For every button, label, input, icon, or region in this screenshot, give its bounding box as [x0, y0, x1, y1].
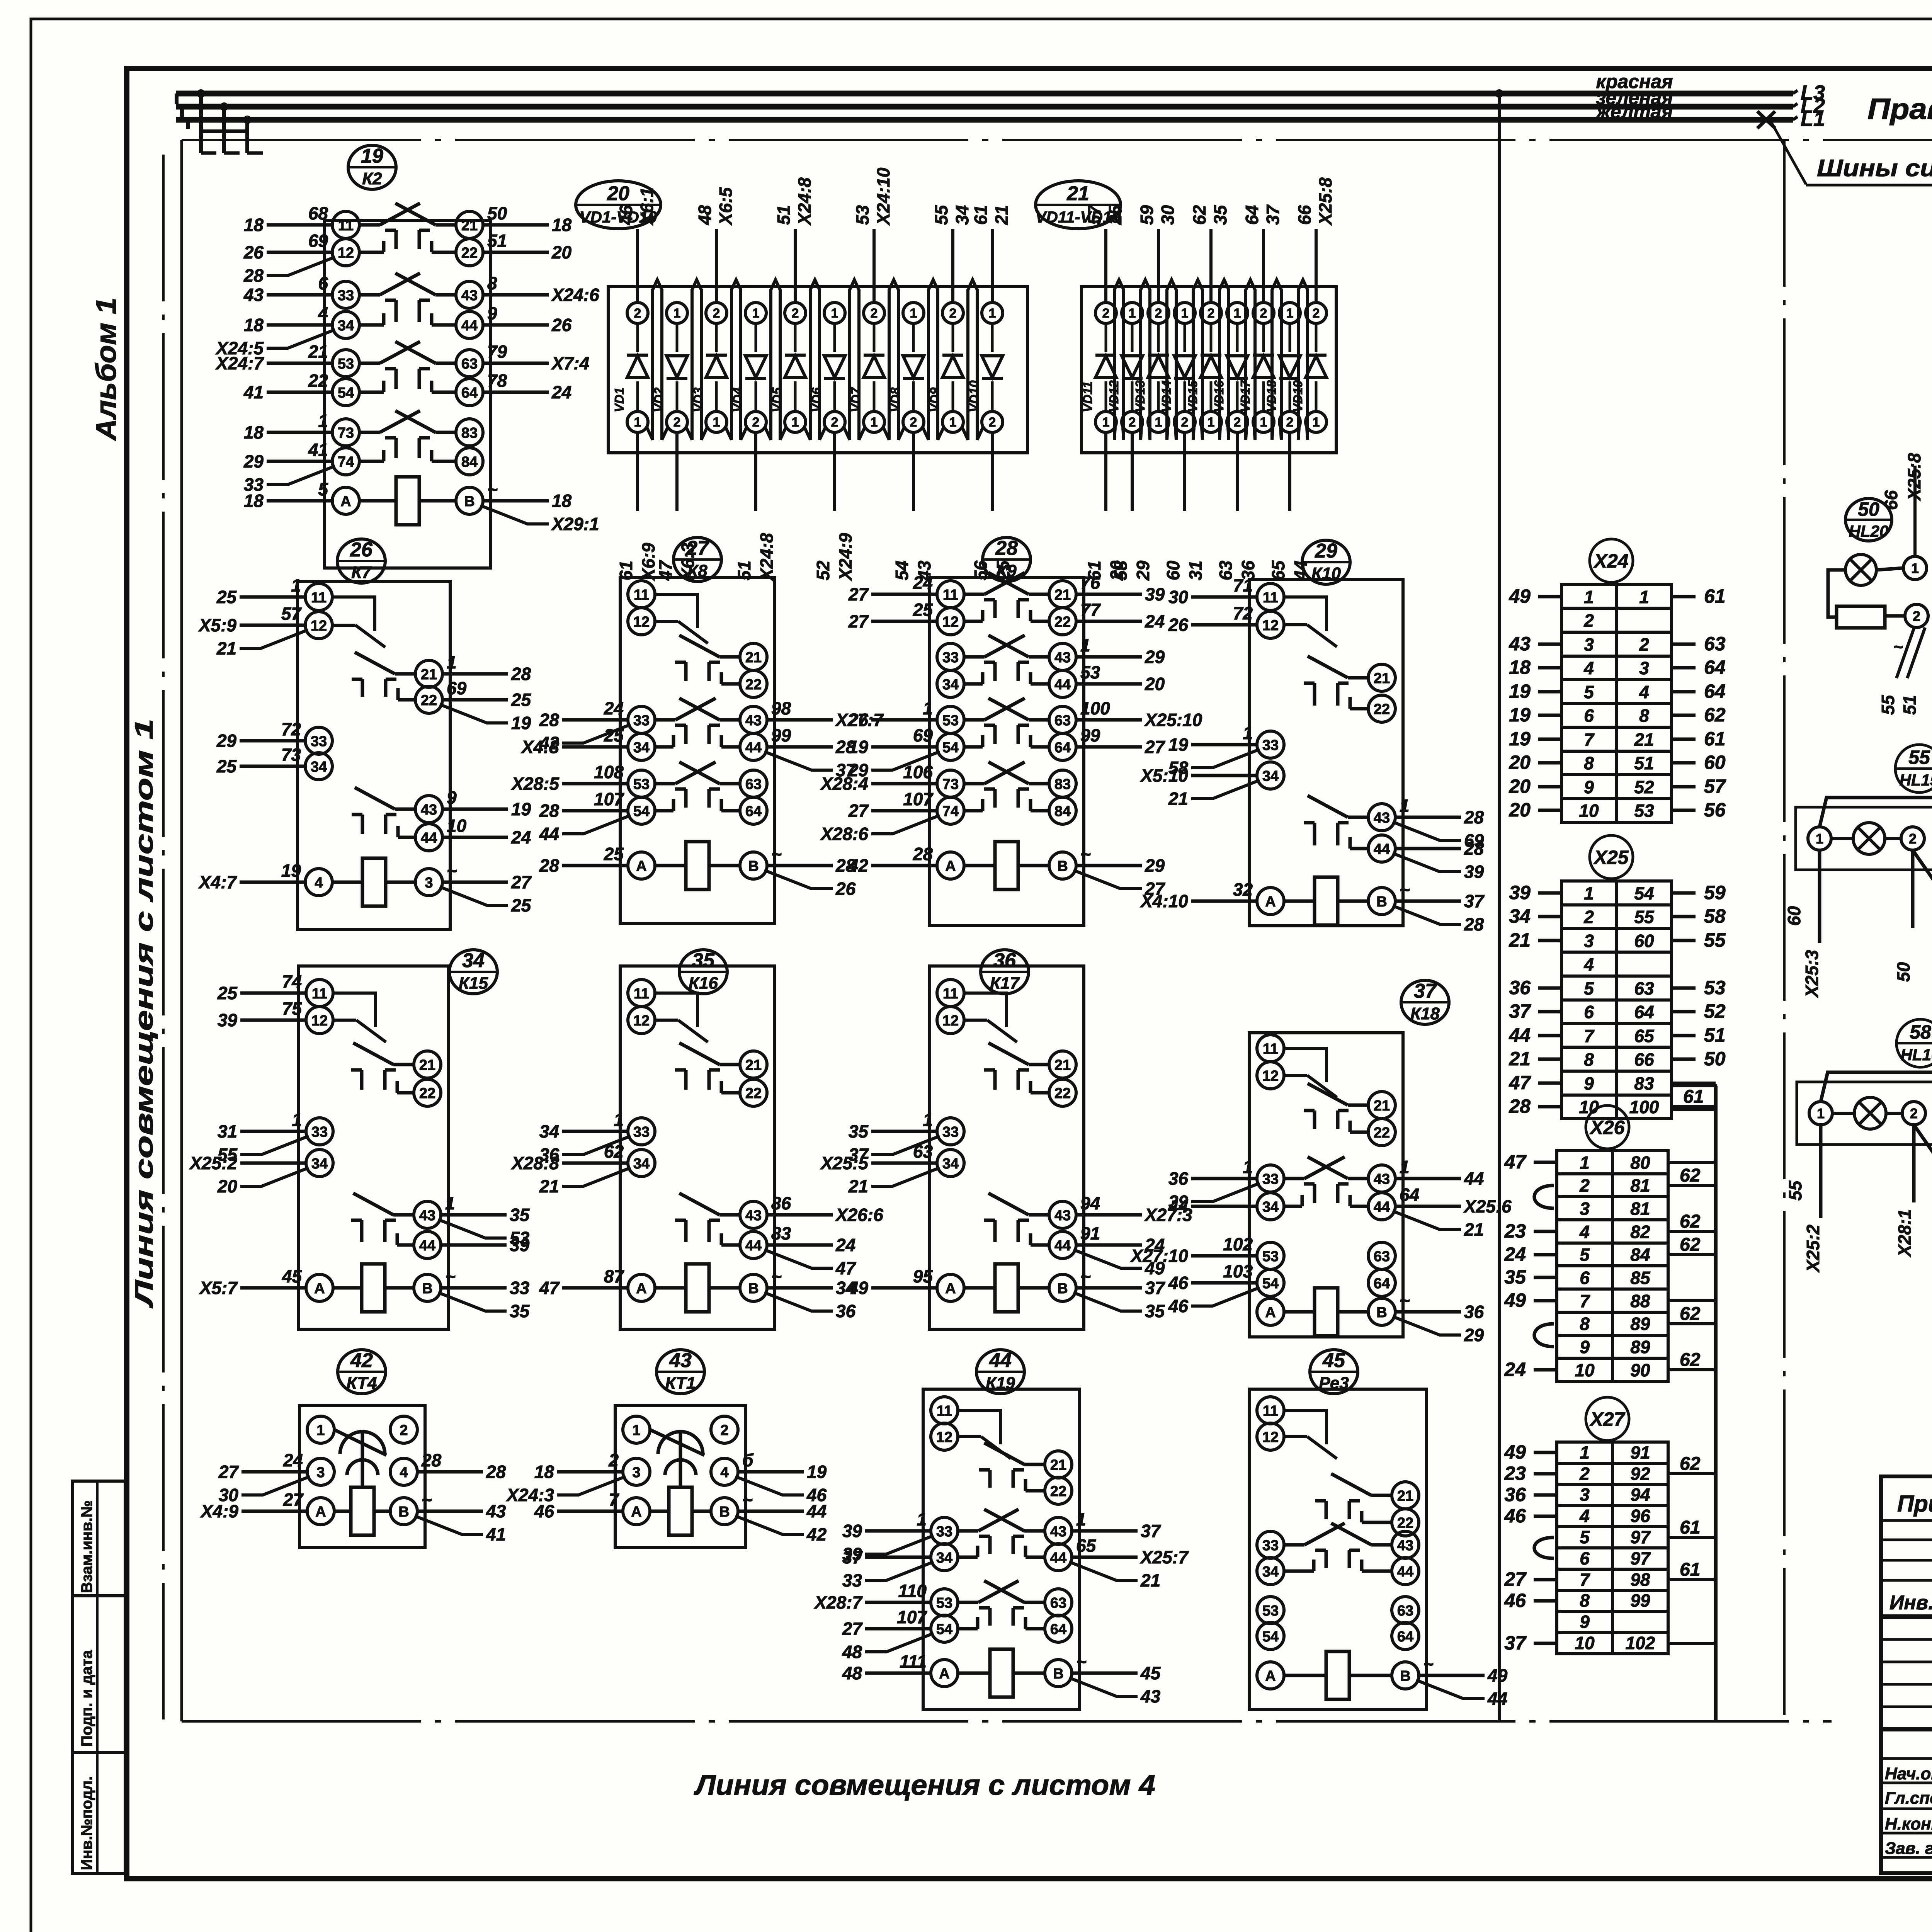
svg-text:10: 10: [1579, 801, 1599, 821]
svg-text:VD8: VD8: [888, 387, 902, 412]
svg-text:51: 51: [1704, 1024, 1726, 1046]
svg-text:10: 10: [447, 816, 467, 836]
svg-text:2: 2: [871, 306, 878, 321]
svg-text:5: 5: [1580, 1527, 1590, 1547]
svg-text:24: 24: [835, 1235, 855, 1255]
svg-text:1: 1: [1580, 1153, 1590, 1173]
svg-text:24: 24: [1504, 1243, 1526, 1265]
svg-text:2: 2: [608, 1450, 619, 1470]
svg-text:VD17: VD17: [1238, 380, 1252, 412]
svg-text:42: 42: [806, 1524, 827, 1544]
relay K9 (pos 28): [820, 537, 1202, 925]
svg-text:46: 46: [1168, 1273, 1189, 1293]
svg-text:49: 49: [1504, 1441, 1526, 1463]
svg-text:18: 18: [244, 215, 264, 235]
svg-text:55: 55: [931, 204, 951, 225]
svg-text:47: 47: [1504, 1151, 1527, 1173]
svg-text:A: A: [314, 1281, 325, 1297]
bus L3 (red): [176, 91, 1793, 97]
svg-text:12: 12: [633, 1013, 650, 1029]
svg-text:33: 33: [942, 650, 959, 666]
side stamp strip (Vzam/Podp/Inv): [72, 1481, 125, 1873]
svg-text:25: 25: [1105, 204, 1125, 225]
terminal block X26: [1504, 1105, 1716, 1381]
svg-text:11: 11: [943, 986, 958, 1002]
svg-text:98: 98: [771, 698, 791, 718]
svg-text:95: 95: [913, 1266, 934, 1286]
svg-text:44: 44: [1291, 561, 1311, 581]
svg-text:1: 1: [634, 415, 641, 430]
svg-text:83: 83: [461, 425, 478, 441]
svg-text:53: 53: [1262, 1248, 1279, 1265]
svg-text:18: 18: [244, 422, 264, 442]
svg-text:B: B: [748, 858, 759, 874]
svg-text:37: 37: [1263, 204, 1283, 225]
svg-text:1: 1: [1080, 635, 1090, 655]
svg-text:43: 43: [1374, 810, 1390, 826]
svg-text:63: 63: [461, 356, 478, 372]
svg-text:63: 63: [1050, 1595, 1066, 1611]
svg-text:33: 33: [936, 1524, 952, 1540]
svg-text:49: 49: [1509, 585, 1531, 607]
svg-text:2: 2: [1583, 611, 1594, 631]
svg-text:60: 60: [1784, 906, 1804, 926]
svg-text:8: 8: [1580, 1314, 1590, 1334]
svg-text:27: 27: [1504, 1568, 1527, 1590]
svg-text:1: 1: [917, 1509, 927, 1529]
svg-text:A: A: [636, 1281, 646, 1297]
svg-text:18: 18: [534, 1462, 554, 1482]
svg-text:6: 6: [1584, 706, 1594, 726]
svg-text:61: 61: [1683, 1087, 1704, 1107]
svg-text:27: 27: [218, 1462, 240, 1482]
svg-text:12: 12: [1262, 1429, 1279, 1446]
svg-text:7: 7: [1580, 1570, 1590, 1590]
svg-text:VD12: VD12: [1107, 380, 1121, 412]
svg-text:12: 12: [1262, 617, 1279, 634]
svg-text:2: 2: [1579, 1175, 1590, 1196]
svg-text:X25:8: X25:8: [1315, 177, 1335, 226]
svg-text:27: 27: [511, 872, 532, 892]
svg-text:б: б: [742, 1450, 754, 1470]
svg-text:64: 64: [745, 803, 762, 820]
svg-text:X25:2: X25:2: [1803, 1225, 1823, 1273]
svg-text:34: 34: [462, 949, 485, 972]
svg-text:73: 73: [281, 745, 301, 765]
svg-text:21: 21: [1509, 929, 1531, 951]
cabinet boundary left: [180, 140, 183, 1721]
svg-text:43: 43: [461, 287, 478, 304]
svg-text:43: 43: [243, 285, 264, 305]
svg-text:1: 1: [1155, 415, 1162, 430]
svg-text:44: 44: [1509, 1024, 1531, 1046]
door boundary left dash-dot: [1783, 140, 1786, 1723]
svg-text:1: 1: [989, 306, 996, 321]
svg-text:64: 64: [1397, 1629, 1413, 1645]
svg-text:55: 55: [1634, 907, 1655, 927]
svg-text:VD6: VD6: [809, 387, 823, 412]
svg-text:К2: К2: [362, 169, 382, 188]
svg-text:Привязан: Привязан: [1897, 1491, 1932, 1517]
svg-text:37: 37: [1145, 1278, 1166, 1298]
svg-text:78: 78: [487, 371, 507, 391]
svg-text:2: 2: [1583, 907, 1594, 927]
svg-text:21: 21: [1634, 730, 1654, 750]
svg-text:19: 19: [511, 713, 531, 733]
svg-text:91: 91: [1080, 1223, 1100, 1243]
svg-text:12: 12: [338, 245, 354, 261]
svg-text:111: 111: [900, 1651, 927, 1672]
svg-text:34: 34: [1509, 905, 1531, 927]
svg-text:47: 47: [835, 1258, 857, 1278]
svg-text:43: 43: [1054, 650, 1071, 666]
svg-text:66: 66: [1881, 490, 1901, 510]
svg-text:X24:9: X24:9: [835, 533, 855, 582]
svg-text:39: 39: [510, 1235, 530, 1255]
svg-text:2: 2: [752, 415, 760, 430]
svg-text:19: 19: [1168, 735, 1189, 755]
svg-text:61: 61: [1084, 561, 1104, 580]
svg-text:34: 34: [633, 1156, 650, 1172]
svg-text:30: 30: [1168, 587, 1189, 607]
svg-text:HL10: HL10: [1901, 1046, 1932, 1064]
bus labels L3 L2 L1: [1793, 81, 1825, 131]
svg-text:21: 21: [421, 667, 437, 683]
svg-text:1: 1: [923, 1110, 933, 1130]
svg-text:B: B: [1057, 1281, 1068, 1297]
svg-text:64: 64: [461, 385, 478, 401]
svg-text:19: 19: [361, 145, 383, 167]
svg-text:B: B: [422, 1281, 432, 1297]
svg-text:64: 64: [1054, 740, 1071, 756]
svg-text:47: 47: [655, 560, 675, 581]
svg-text:X6:1: X6:1: [637, 187, 657, 226]
svg-text:61: 61: [616, 561, 636, 580]
diode assembly VD11-VD19 (pos 21): [1036, 177, 1337, 581]
svg-text:Подп. и дата: Подп. и дата: [78, 1650, 95, 1747]
relay K2 (pos 19): [215, 145, 599, 568]
svg-text:X24: X24: [1593, 550, 1629, 572]
svg-text:44: 44: [806, 1501, 827, 1521]
svg-text:~: ~: [742, 1490, 753, 1510]
svg-text:2: 2: [1155, 306, 1162, 321]
svg-text:47: 47: [539, 1278, 560, 1298]
svg-text:21: 21: [539, 1176, 559, 1196]
svg-text:28: 28: [1464, 914, 1484, 934]
svg-text:28: 28: [421, 1450, 442, 1470]
svg-text:81: 81: [1630, 1175, 1650, 1196]
svg-text:64: 64: [1242, 205, 1262, 225]
svg-text:43: 43: [745, 713, 762, 729]
lamp assembly HL10 (pos 58): [1785, 1019, 1932, 1273]
svg-text:35: 35: [510, 1301, 530, 1321]
svg-text:34: 34: [338, 318, 354, 334]
svg-text:A: A: [340, 493, 351, 510]
svg-text:VD19: VD19: [1291, 380, 1305, 412]
svg-text:63: 63: [1397, 1603, 1413, 1619]
cross mark on bus L1: [1757, 111, 1775, 128]
svg-text:26: 26: [243, 242, 264, 262]
relay Re3 (pos 45): [1249, 1349, 1508, 1709]
svg-text:8: 8: [1584, 1049, 1594, 1070]
terminal block X24: [1509, 539, 1726, 822]
svg-text:50: 50: [1858, 498, 1879, 520]
svg-text:88: 88: [1630, 1291, 1650, 1311]
svg-text:43: 43: [1140, 1686, 1161, 1706]
svg-text:37: 37: [1414, 980, 1437, 1002]
svg-text:25: 25: [993, 560, 1013, 581]
svg-text:1: 1: [1207, 415, 1215, 430]
svg-text:107: 107: [594, 789, 624, 809]
svg-text:21: 21: [216, 638, 236, 658]
svg-text:Зав. гр.: Зав. гр.: [1885, 1839, 1932, 1858]
svg-text:79: 79: [487, 342, 507, 362]
terminal block X25: [1509, 835, 1726, 1119]
svg-text:X5:7: X5:7: [199, 1278, 238, 1298]
svg-text:36: 36: [993, 949, 1016, 972]
svg-text:20: 20: [551, 242, 572, 262]
svg-text:Н.контр: Н.контр: [1885, 1815, 1932, 1833]
svg-text:29: 29: [1315, 540, 1337, 562]
svg-text:44: 44: [419, 1238, 435, 1254]
svg-text:4: 4: [315, 875, 323, 891]
svg-text:25: 25: [511, 690, 532, 710]
svg-text:84: 84: [461, 454, 478, 470]
svg-text:~: ~: [1076, 1651, 1087, 1672]
svg-text:~: ~: [1080, 1266, 1091, 1286]
svg-text:22: 22: [1397, 1515, 1413, 1531]
svg-text:21: 21: [1054, 1057, 1071, 1073]
svg-text:98: 98: [1630, 1570, 1650, 1590]
svg-text:HL15: HL15: [1900, 771, 1932, 789]
svg-text:89: 89: [1630, 1337, 1650, 1357]
svg-text:54: 54: [1262, 1276, 1279, 1292]
svg-text:26: 26: [1168, 615, 1189, 635]
svg-text:34: 34: [539, 1121, 559, 1141]
svg-text:65: 65: [1634, 1026, 1655, 1046]
relay K19 (pos 44): [813, 1349, 1189, 1709]
svg-text:53: 53: [1634, 801, 1654, 821]
dash-dot match line left: [162, 155, 165, 1719]
svg-text:33: 33: [311, 733, 327, 750]
svg-text:83: 83: [1634, 1073, 1654, 1094]
svg-text:X24:6: X24:6: [551, 285, 599, 305]
match line bottom dash-dot: [182, 1720, 1832, 1723]
svg-text:28: 28: [243, 265, 264, 286]
svg-text:51: 51: [1634, 753, 1654, 773]
svg-text:25: 25: [604, 844, 624, 864]
svg-text:VD14: VD14: [1159, 380, 1173, 412]
cabinet boundary right: [1498, 94, 1501, 1723]
svg-text:47: 47: [1509, 1072, 1531, 1094]
svg-text:2: 2: [1129, 415, 1136, 430]
svg-text:29: 29: [1133, 560, 1153, 581]
svg-text:66: 66: [1294, 205, 1315, 225]
svg-text:41: 41: [308, 440, 328, 460]
svg-text:VD2: VD2: [651, 387, 666, 412]
svg-text:33: 33: [942, 1124, 959, 1140]
svg-text:49: 49: [1504, 1289, 1526, 1311]
svg-text:6: 6: [1580, 1548, 1590, 1568]
svg-text:B: B: [1053, 1666, 1063, 1682]
svg-text:X27:10: X27:10: [1130, 1246, 1189, 1266]
svg-text:52: 52: [1704, 1000, 1726, 1022]
svg-text:37: 37: [842, 1547, 863, 1567]
svg-text:VD15: VD15: [1185, 380, 1200, 412]
svg-text:61: 61: [1704, 585, 1726, 607]
svg-text:72: 72: [1233, 603, 1253, 623]
svg-text:55: 55: [1908, 747, 1930, 768]
svg-text:26: 26: [551, 315, 572, 335]
svg-text:~: ~: [771, 1266, 782, 1286]
svg-text:64: 64: [1050, 1621, 1066, 1638]
svg-text:A: A: [945, 858, 956, 874]
svg-text:26: 26: [835, 879, 856, 899]
svg-text:~: ~: [422, 1490, 432, 1510]
svg-text:1: 1: [673, 306, 681, 321]
svg-text:1: 1: [752, 306, 760, 321]
svg-text:1: 1: [1639, 587, 1649, 607]
collector wire to terminals: [1714, 1086, 1718, 1721]
svg-text:VD13: VD13: [1133, 380, 1147, 412]
svg-text:22: 22: [745, 1085, 762, 1102]
svg-text:108: 108: [594, 762, 624, 782]
svg-text:28: 28: [539, 801, 560, 821]
svg-text:69: 69: [913, 725, 933, 745]
svg-text:34: 34: [1262, 768, 1279, 784]
svg-text:Линия совмещения с листо: Линия совмещения с листом 1: [129, 719, 158, 1308]
svg-text:X6:3: X6:3: [678, 543, 698, 582]
svg-text:74: 74: [338, 454, 354, 470]
svg-text:36: 36: [1509, 977, 1531, 998]
svg-text:X28:7: X28:7: [813, 1592, 863, 1612]
svg-text:X6:5: X6:5: [716, 187, 736, 226]
svg-text:~: ~: [1400, 1290, 1410, 1310]
svg-text:24: 24: [604, 698, 624, 718]
svg-text:102: 102: [1626, 1633, 1655, 1653]
svg-text:12: 12: [942, 614, 959, 630]
svg-text:12: 12: [311, 1013, 328, 1029]
svg-text:24: 24: [551, 382, 571, 402]
svg-text:~: ~: [1080, 844, 1091, 864]
svg-text:48: 48: [842, 1642, 862, 1662]
svg-text:1: 1: [445, 1193, 455, 1213]
svg-text:9: 9: [1580, 1612, 1590, 1632]
svg-text:107: 107: [897, 1607, 927, 1627]
match line top dash-dot: [182, 139, 1932, 141]
svg-text:64: 64: [1400, 1185, 1419, 1205]
svg-text:27: 27: [283, 1490, 304, 1510]
svg-text:94: 94: [1630, 1485, 1650, 1505]
bus L2 (green): [176, 104, 1793, 110]
svg-text:8: 8: [1639, 706, 1649, 726]
svg-text:1: 1: [1076, 1509, 1086, 1529]
svg-text:62: 62: [1189, 205, 1209, 225]
svg-text:32: 32: [1233, 879, 1253, 900]
svg-text:2: 2: [910, 415, 917, 430]
svg-text:X24:8: X24:8: [794, 177, 815, 226]
svg-text:X25:3: X25:3: [1802, 950, 1822, 998]
svg-text:1: 1: [316, 1422, 325, 1439]
svg-text:62: 62: [1680, 1304, 1701, 1324]
svg-text:54: 54: [633, 803, 650, 820]
svg-text:К17: К17: [990, 974, 1020, 993]
svg-text:44: 44: [1054, 1238, 1071, 1254]
svg-text:L1: L1: [1801, 107, 1825, 131]
svg-text:3: 3: [1584, 634, 1594, 655]
svg-text:66: 66: [1634, 1049, 1654, 1070]
svg-text:43: 43: [745, 1207, 762, 1224]
svg-text:2: 2: [1207, 306, 1215, 321]
svg-text:61: 61: [1680, 1560, 1700, 1580]
svg-text:37: 37: [1504, 1632, 1527, 1654]
svg-text:99: 99: [1080, 725, 1100, 745]
svg-text:КТ4: КТ4: [347, 1374, 377, 1393]
svg-text:Инв. №: Инв. №: [1889, 1592, 1932, 1614]
svg-text:24: 24: [1504, 1359, 1526, 1380]
indicator lamp HL20 (pos 50): [1828, 453, 1928, 715]
svg-text:43: 43: [419, 1207, 435, 1224]
bus left end hooks: [177, 94, 188, 129]
svg-text:X25:10: X25:10: [1144, 710, 1202, 730]
svg-text:26: 26: [350, 539, 373, 561]
svg-text:55: 55: [1785, 1180, 1805, 1201]
svg-text:11: 11: [943, 587, 958, 603]
svg-text:27: 27: [848, 584, 869, 604]
svg-text:29: 29: [1464, 1325, 1484, 1345]
svg-text:25: 25: [216, 756, 237, 776]
svg-text:39: 39: [1145, 584, 1165, 604]
svg-text:50: 50: [1704, 1048, 1726, 1070]
svg-text:82: 82: [1630, 1222, 1650, 1242]
svg-text:58: 58: [1704, 905, 1726, 927]
svg-text:2: 2: [1909, 831, 1917, 847]
svg-text:К7: К7: [351, 563, 372, 582]
svg-text:VD5: VD5: [770, 387, 784, 412]
svg-text:62: 62: [604, 1141, 624, 1162]
svg-text:1: 1: [291, 575, 301, 595]
svg-text:4: 4: [400, 1464, 408, 1481]
svg-text:28: 28: [1464, 807, 1484, 827]
svg-text:19: 19: [807, 1462, 827, 1482]
svg-text:99: 99: [771, 725, 791, 745]
svg-text:11: 11: [1263, 1041, 1278, 1057]
svg-text:45: 45: [1322, 1349, 1345, 1372]
svg-text:К19: К19: [986, 1374, 1015, 1393]
svg-text:1: 1: [713, 415, 720, 430]
svg-text:28: 28: [511, 664, 531, 684]
svg-text:43: 43: [914, 560, 934, 581]
svg-text:22: 22: [1054, 614, 1071, 630]
svg-text:1: 1: [1400, 1157, 1410, 1177]
svg-text:2: 2: [720, 1422, 728, 1439]
svg-text:97: 97: [1630, 1548, 1651, 1568]
svg-text:3: 3: [1639, 658, 1649, 678]
svg-text:33: 33: [311, 1124, 328, 1140]
svg-text:34: 34: [952, 205, 972, 225]
svg-text:30: 30: [1158, 205, 1178, 225]
svg-text:33: 33: [338, 287, 354, 304]
svg-text:92: 92: [1630, 1464, 1650, 1484]
svg-text:2: 2: [1102, 306, 1110, 321]
svg-text:1: 1: [871, 415, 878, 430]
svg-text:63: 63: [1374, 1248, 1390, 1265]
svg-text:42: 42: [350, 1349, 373, 1372]
svg-text:21: 21: [1054, 587, 1071, 603]
svg-text:X25:2: X25:2: [189, 1153, 237, 1173]
svg-text:4: 4: [720, 1464, 728, 1481]
svg-text:B: B: [1376, 1304, 1387, 1321]
